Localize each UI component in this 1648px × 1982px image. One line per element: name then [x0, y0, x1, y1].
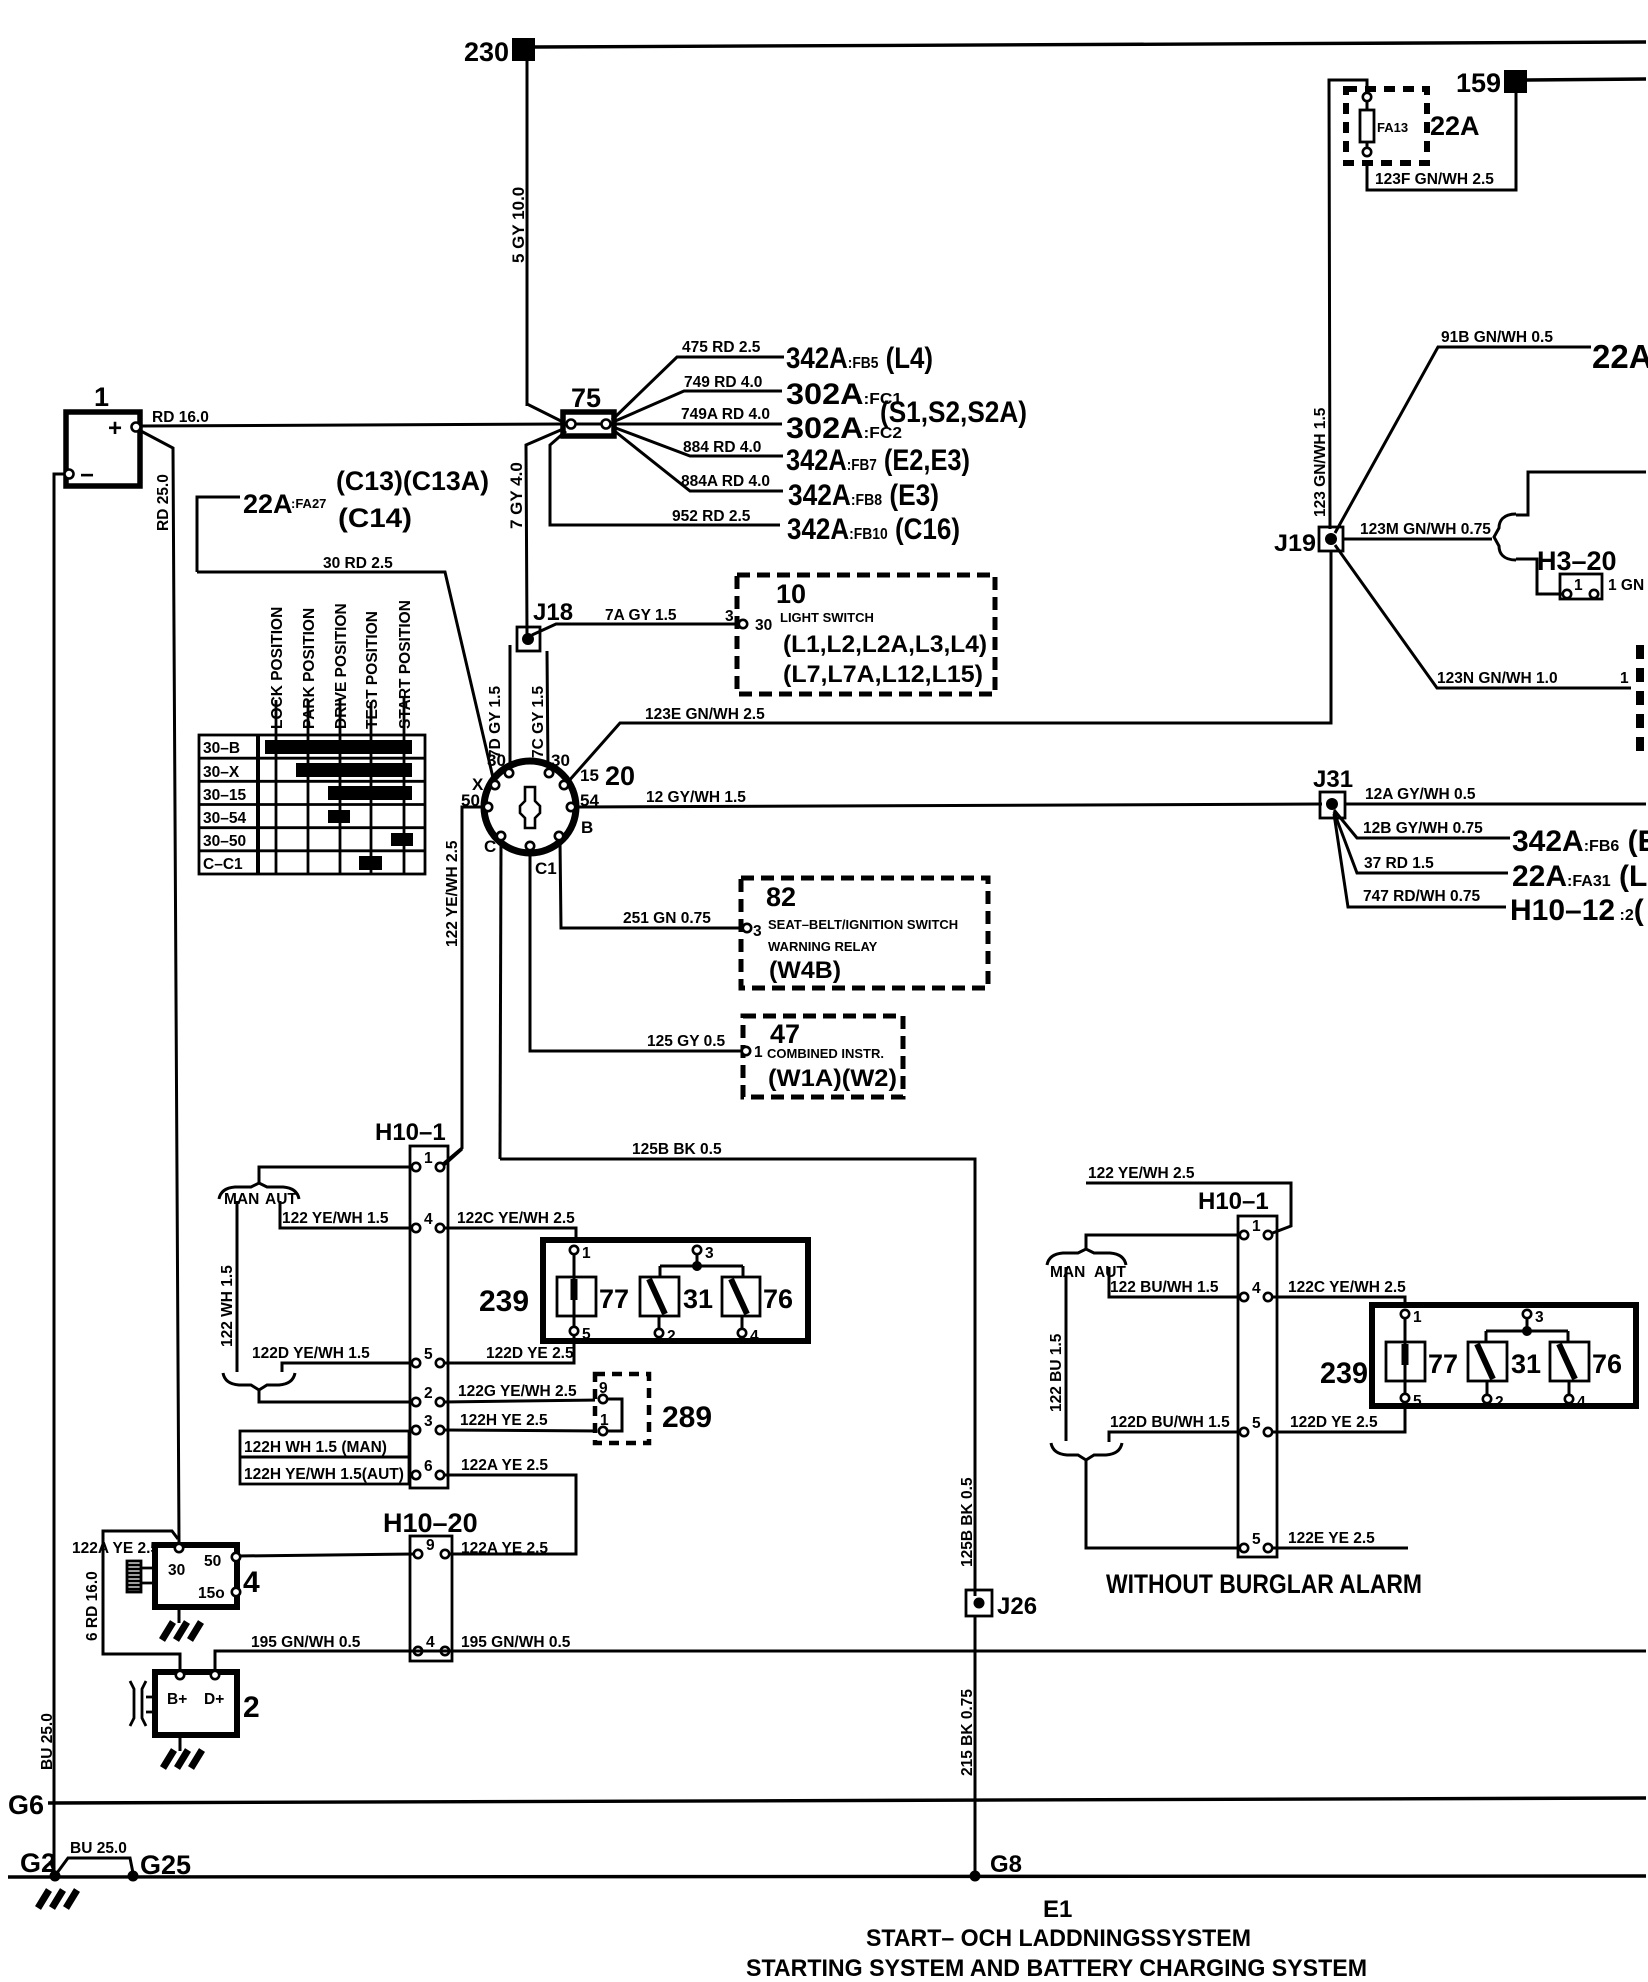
svg-text:10: 10: [776, 579, 806, 609]
svg-text:START– OCH LADDNINGSSYSTEM: START– OCH LADDNINGSSYSTEM: [866, 1925, 1251, 1952]
svg-text:4: 4: [1577, 1394, 1586, 1411]
svg-text:7A GY 1.5: 7A GY 1.5: [605, 607, 677, 624]
svg-text:MAN: MAN: [1050, 1264, 1085, 1281]
alternator 2: [155, 1671, 260, 1735]
svg-text:1 GN: 1 GN: [1608, 577, 1644, 594]
svg-text:(L1,L2,L2A,L3,L4): (L1,L2,L2A,L3,L4): [783, 631, 987, 658]
svg-text:30–50: 30–50: [203, 833, 246, 850]
svg-text:STARTING SYSTEM AND BATTERY CH: STARTING SYSTEM AND BATTERY CHARGING SYS…: [746, 1955, 1367, 1982]
svg-text:3: 3: [725, 608, 734, 625]
svg-text:37 RD 1.5: 37 RD 1.5: [1364, 855, 1434, 872]
svg-text:H10–1: H10–1: [375, 1119, 446, 1146]
svg-text:B+: B+: [167, 1691, 187, 1708]
svg-text:5: 5: [1413, 1393, 1422, 1410]
svg-text:20: 20: [605, 761, 635, 791]
connector J31: [1313, 766, 1353, 818]
svg-text:123E GN/WH 2.5: 123E GN/WH 2.5: [645, 706, 765, 723]
ground under starter: [162, 1607, 201, 1640]
wire 122 YE/WH 1.5 (AUT branch) to pin 4: [280, 1201, 412, 1228]
wire from pin B down to 82: [560, 841, 743, 928]
wire RD 25.0 battery+ down to starter: [139, 430, 179, 1542]
wire 884A RD 4.0 fan: [612, 429, 783, 491]
svg-text:30–B: 30–B: [203, 740, 240, 757]
node G8: [970, 1871, 981, 1882]
svg-text:122D YE/WH 1.5: 122D YE/WH 1.5: [252, 1345, 370, 1362]
svg-text:75: 75: [571, 383, 601, 413]
wire 122 BU/WH 1.5 (AUT branch) to pin 4: [1109, 1267, 1240, 1297]
svg-text:30–X: 30–X: [203, 764, 240, 781]
wire 12 GY/WH 1.5 from pin 54 to J31: [576, 804, 1322, 807]
wire from pin C down: [500, 841, 501, 1159]
svg-text:122D BU/WH 1.5: 122D BU/WH 1.5: [1110, 1414, 1230, 1431]
brace MAN/AUT right: [1047, 1249, 1126, 1265]
svg-text:952 RD 2.5: 952 RD 2.5: [672, 508, 751, 525]
wire battery- to BU 25.0 down: [54, 474, 65, 1876]
wire 122 WH 1.5 (MAN branch): [236, 1201, 239, 1372]
combined instrument 47: [742, 1016, 903, 1097]
svg-text:475 RD 2.5: 475 RD 2.5: [682, 339, 761, 356]
svg-text:749A RD 4.0: 749A RD 4.0: [681, 406, 770, 423]
wire 123 GN/WH 1.5 from fuse to J19: [1329, 80, 1367, 529]
svg-text:G6: G6: [8, 1790, 44, 1820]
wire top rail from 230: [535, 42, 1646, 47]
svg-text:C: C: [484, 837, 496, 856]
ground at G2: [38, 1890, 77, 1908]
wire G2 pointer: [50, 1861, 56, 1875]
lower brace merge right: [1051, 1443, 1122, 1460]
svg-text:6 RD 16.0: 6 RD 16.0: [84, 1571, 101, 1641]
wire 122A YE 2.5 starter to H10-20: [238, 1554, 414, 1556]
svg-text:J18: J18: [533, 599, 573, 626]
svg-text:122D YE 2.5: 122D YE 2.5: [486, 1345, 574, 1362]
light switch 10: [725, 575, 995, 694]
svg-text:122G YE/WH 2.5: 122G YE/WH 2.5: [458, 1383, 577, 1400]
svg-text:1: 1: [1620, 670, 1629, 687]
svg-text:30–54: 30–54: [203, 810, 246, 827]
svg-text:91B GN/WH 0.5: 91B GN/WH 0.5: [1441, 329, 1553, 346]
brace MAN/AUT: [219, 1183, 299, 1199]
svg-text:123M GN/WH 0.75: 123M GN/WH 0.75: [1360, 521, 1491, 538]
connector J18: [517, 599, 573, 651]
svg-text:FA13: FA13: [1377, 120, 1408, 135]
svg-text:30 RD 2.5: 30 RD 2.5: [323, 555, 393, 572]
brace for H3-20: [1494, 514, 1516, 560]
svg-text:77: 77: [1428, 1349, 1458, 1379]
svg-text:1: 1: [424, 1150, 433, 1167]
svg-text:30: 30: [487, 751, 506, 770]
svg-text:DRIVE POSITION: DRIVE POSITION: [333, 603, 350, 729]
svg-text:122 BU 1.5: 122 BU 1.5: [1048, 1333, 1065, 1412]
svg-text:12B GY/WH 0.75: 12B GY/WH 0.75: [1363, 820, 1483, 837]
svg-text:77: 77: [599, 1284, 629, 1314]
wire 7 GY 4.0 from 75 down to J18: [526, 429, 563, 634]
wire RD 16.0 battery+ to 75: [141, 424, 565, 426]
svg-text:342A:FB6 (E3): 342A:FB6 (E3): [1512, 825, 1648, 858]
ignition switch 20: [461, 751, 599, 878]
svg-text:125B BK 0.5: 125B BK 0.5: [959, 1477, 976, 1567]
svg-text:B: B: [581, 818, 593, 837]
svg-text:J31: J31: [1313, 766, 1353, 793]
svg-text:(W4B): (W4B): [769, 957, 841, 984]
dashed component edge at page margin: [1636, 645, 1644, 757]
svg-text:C1: C1: [535, 859, 557, 878]
svg-text:125 GY 0.5: 125 GY 0.5: [647, 1033, 726, 1050]
svg-text:PARK POSITION: PARK POSITION: [301, 608, 318, 729]
wire H3-20 upper lead: [1516, 472, 1646, 515]
svg-text:−: −: [80, 462, 94, 489]
relay 82 seat-belt warning: [741, 878, 988, 988]
wire rail from 159: [1527, 79, 1646, 80]
svg-text:START POSITION: START POSITION: [397, 600, 414, 729]
svg-text:BU 25.0: BU 25.0: [70, 1840, 127, 1857]
svg-text:3: 3: [424, 1413, 433, 1430]
svg-text:122E YE 2.5: 122E YE 2.5: [1288, 1530, 1375, 1547]
svg-text:7 GY 4.0: 7 GY 4.0: [507, 462, 526, 529]
svg-text:22A: 22A: [243, 489, 293, 519]
svg-text:2: 2: [424, 1385, 433, 1402]
wire 122A YE 2.5 pin6 to H10-20: [444, 1475, 576, 1554]
svg-text:122A YE 2.5: 122A YE 2.5: [72, 1540, 159, 1557]
svg-text:15: 15: [580, 766, 599, 785]
wire 749A RD 4.0 fan: [614, 423, 782, 426]
wire 37 RD 1.5: [1334, 812, 1508, 873]
svg-text:30–15: 30–15: [203, 787, 246, 804]
svg-text:BU 25.0: BU 25.0: [39, 1713, 56, 1770]
svg-text:C–C1: C–C1: [203, 856, 243, 873]
svg-text:31: 31: [683, 1284, 713, 1314]
svg-text:4: 4: [750, 1328, 759, 1345]
svg-text:3: 3: [753, 923, 762, 940]
wire 125B BK 0.5: [500, 1159, 975, 1596]
wire 122 YE/WH 2.5 right variant feed: [1086, 1183, 1291, 1234]
fuse FA13 22A: [1346, 89, 1427, 163]
svg-text:122 YE/WH 2.5: 122 YE/WH 2.5: [1088, 1165, 1195, 1182]
wire BU 25.0 jumper G2-G25: [57, 1858, 133, 1873]
svg-text:7D GY 1.5: 7D GY 1.5: [487, 686, 504, 758]
svg-text:(S1,S2,S2A): (S1,S2,S2A): [880, 396, 1027, 429]
svg-text:289: 289: [662, 1401, 712, 1434]
svg-text:MAN: MAN: [224, 1191, 259, 1208]
svg-text:122H YE 2.5: 122H YE 2.5: [460, 1412, 548, 1429]
svg-text:22A: 22A: [1430, 111, 1480, 141]
connector H10-1 left: [375, 1119, 448, 1488]
ignition switch position table: [199, 696, 425, 874]
ground under alternator: [163, 1735, 202, 1768]
svg-text:50: 50: [204, 1553, 221, 1570]
svg-text:+: +: [108, 415, 122, 442]
svg-text:5: 5: [1252, 1415, 1261, 1432]
wire pin1 to MAN/AUT brace: [259, 1167, 412, 1184]
wire pin5 left to lower brace: [282, 1363, 412, 1372]
svg-text:230: 230: [464, 37, 509, 67]
svg-text:76: 76: [1592, 1349, 1622, 1379]
wire 12B GY/WH 0.75: [1334, 810, 1510, 838]
svg-text:122 YE/WH 2.5: 122 YE/WH 2.5: [444, 840, 461, 947]
connector H10-1 right: [1198, 1188, 1277, 1557]
wire 215 BK 0.75: [974, 1616, 977, 1876]
svg-text:2: 2: [1495, 1394, 1504, 1411]
svg-text:5: 5: [424, 1346, 433, 1363]
svg-text:D+: D+: [204, 1691, 224, 1708]
lower brace merge: [223, 1373, 295, 1390]
svg-text:1: 1: [754, 1044, 763, 1061]
svg-text:5: 5: [582, 1326, 591, 1343]
svg-text:47: 47: [770, 1019, 800, 1049]
svg-text:122C YE/WH 2.5: 122C YE/WH 2.5: [457, 1210, 575, 1227]
svg-text:(W1A)(W2): (W1A)(W2): [768, 1065, 897, 1092]
wire 195 GN/WH 0.5 full width: [215, 1651, 1646, 1672]
svg-text:30: 30: [551, 751, 570, 770]
node G25: [128, 1871, 139, 1882]
wire 122G YE/WH 2.5 pin2 to 289: [444, 1400, 600, 1402]
wire pin5 left to lower brace right: [1109, 1432, 1240, 1442]
svg-text:RD 16.0: RD 16.0: [152, 409, 209, 426]
wire 123F GN/WH 2.5: [1367, 93, 1516, 190]
wire 122H YE 2.5 pin3 to 289: [444, 1430, 600, 1431]
svg-text:884A RD 4.0: 884A RD 4.0: [681, 473, 770, 490]
svg-text:239: 239: [1320, 1357, 1368, 1390]
svg-text:WARNING RELAY: WARNING RELAY: [768, 939, 878, 954]
wire 5 GY 10.0 vertical: [526, 61, 529, 406]
wire brace to bottom pin: [1086, 1460, 1240, 1548]
svg-text:H3–20: H3–20: [1537, 546, 1617, 576]
connector J19: [1274, 527, 1343, 557]
svg-text:9: 9: [426, 1537, 435, 1554]
wire 7D GY 1.5: [509, 645, 512, 770]
svg-text:342A:FB7 (E2,E3): 342A:FB7 (E2,E3): [786, 444, 970, 477]
svg-text:76: 76: [763, 1284, 793, 1314]
svg-text:122C YE/WH 2.5: 122C YE/WH 2.5: [1288, 1279, 1406, 1296]
svg-text:2: 2: [243, 1691, 260, 1724]
starter motor 4: [155, 1544, 260, 1607]
wire pin1 right to 122 vertical: [444, 1149, 462, 1165]
connector H3-20: [1537, 546, 1644, 599]
svg-text:159: 159: [1456, 68, 1501, 98]
svg-text:122 BU/WH 1.5: 122 BU/WH 1.5: [1110, 1279, 1219, 1296]
svg-text:LIGHT SWITCH: LIGHT SWITCH: [780, 610, 874, 625]
svg-text:30: 30: [755, 617, 772, 634]
wire 6 RD 16.0 loop: [103, 1531, 180, 1671]
svg-text:749 RD 4.0: 749 RD 4.0: [684, 374, 762, 391]
node 159: [1456, 68, 1527, 98]
connector 289: [595, 1374, 649, 1443]
wire 122D YE 2.5 relay pin5 to H10-1 pin5: [444, 1335, 574, 1363]
svg-text:H10–1: H10–1: [1198, 1188, 1269, 1215]
svg-text:747 RD/WH 0.75: 747 RD/WH 0.75: [1363, 888, 1481, 905]
svg-text:122A YE 2.5: 122A YE 2.5: [461, 1457, 548, 1474]
wire 749 RD 4.0 fan: [613, 391, 782, 422]
wire 884 RD 4.0 fan: [613, 427, 783, 456]
svg-text:122H WH 1.5 (MAN): 122H WH 1.5 (MAN): [244, 1439, 387, 1456]
svg-text:4: 4: [426, 1634, 435, 1651]
svg-text:LOCK POSITION: LOCK POSITION: [269, 607, 286, 729]
starter pinion gear: [127, 1561, 155, 1592]
svg-text:J26: J26: [997, 1593, 1037, 1620]
svg-text:2: 2: [667, 1328, 676, 1345]
svg-text:122A YE 2.5: 122A YE 2.5: [461, 1540, 548, 1557]
svg-text:(L7,L7A,L12,L15): (L7,L7A,L12,L15): [783, 661, 983, 688]
wire 747 RD/WH 0.75: [1334, 814, 1506, 907]
svg-text:1: 1: [1252, 1218, 1261, 1235]
connector H10-20: [383, 1508, 478, 1661]
svg-text:31: 31: [1511, 1349, 1541, 1379]
svg-text:(C14): (C14): [338, 503, 412, 533]
svg-text:5: 5: [1252, 1531, 1261, 1548]
wire brace to pin 2: [259, 1390, 412, 1402]
wire 952 RD 2.5 from 75: [550, 431, 780, 525]
svg-text:7C GY 1.5: 7C GY 1.5: [530, 686, 547, 758]
connector J26: [966, 1590, 1037, 1620]
wire 123N GN/WH 1.0: [1335, 545, 1631, 688]
wire 475 RD 2.5 fan: [612, 357, 784, 420]
svg-text:12A GY/WH 0.5: 12A GY/WH 0.5: [1365, 786, 1476, 803]
svg-text:22A :: 22A :: [1592, 338, 1648, 375]
svg-text:3: 3: [705, 1245, 714, 1262]
wire from pin C1 down to 47: [530, 851, 742, 1051]
svg-text:H10–20: H10–20: [383, 1508, 478, 1538]
svg-text:J19: J19: [1274, 530, 1316, 557]
box 122H MAN/AUT variants: [240, 1431, 409, 1484]
svg-text:3: 3: [1535, 1309, 1544, 1326]
svg-text:123 GN/WH 1.5: 123 GN/WH 1.5: [1312, 407, 1329, 517]
wire pin1 to MAN/AUT brace right: [1086, 1235, 1240, 1250]
connector 75: [563, 383, 614, 436]
node G2: [50, 1871, 61, 1882]
svg-text:123F GN/WH 2.5: 123F GN/WH 2.5: [1375, 171, 1494, 188]
svg-text:125B BK 0.5: 125B BK 0.5: [632, 1141, 722, 1158]
svg-text:1: 1: [1574, 577, 1583, 594]
wire 91B GN/WH 0.5: [1335, 347, 1591, 533]
relay 239 left: [479, 1240, 808, 1345]
svg-text:15o: 15o: [198, 1585, 225, 1602]
svg-text:E1: E1: [1043, 1896, 1072, 1923]
svg-text:884 RD 4.0: 884 RD 4.0: [683, 439, 761, 456]
wire 122 YE/WH 2.5 from pin 50 down: [443, 807, 484, 1164]
svg-text:12 GY/WH 1.5: 12 GY/WH 1.5: [646, 789, 746, 806]
svg-text:RD 25.0: RD 25.0: [155, 474, 172, 531]
svg-text:TEST POSITION: TEST POSITION: [364, 611, 381, 729]
svg-text:4: 4: [424, 1211, 433, 1228]
svg-text:239: 239: [479, 1285, 529, 1318]
svg-text:122 WH 1.5: 122 WH 1.5: [219, 1265, 236, 1347]
svg-text:G8: G8: [990, 1851, 1022, 1878]
wire 123E GN/WH 2.5 from pin 15: [567, 551, 1331, 783]
node 230: [464, 37, 535, 67]
label 22A:FA27: [197, 489, 326, 572]
svg-text:WITHOUT BURGLAR ALARM: WITHOUT BURGLAR ALARM: [1106, 1569, 1422, 1599]
svg-text:123N GN/WH 1.0: 123N GN/WH 1.0: [1437, 670, 1558, 687]
relay 239 right: [1320, 1305, 1636, 1411]
svg-text:4: 4: [1252, 1280, 1261, 1297]
svg-text:5 GY 10.0: 5 GY 10.0: [509, 187, 528, 263]
svg-text:122H YE/WH 1.5(AUT): 122H YE/WH 1.5(AUT): [244, 1466, 404, 1483]
alternator pulley: [130, 1681, 155, 1726]
svg-text:195 GN/WH 0.5: 195 GN/WH 0.5: [251, 1634, 361, 1651]
wire 122 BU 1.5 (MAN branch): [1065, 1267, 1068, 1441]
svg-text:6: 6: [424, 1458, 433, 1475]
wire 7A GY 1.5 J18 to light switch: [532, 624, 738, 635]
wire 122C YE/WH 2.5 pin4 to relay 239: [444, 1228, 576, 1246]
svg-text:(C13)(C13A): (C13)(C13A): [336, 466, 489, 496]
svg-text:COMBINED INSTR.: COMBINED INSTR.: [767, 1046, 884, 1061]
battery 1: [65, 382, 141, 489]
svg-text:215 BK 0.75: 215 BK 0.75: [959, 1689, 976, 1776]
svg-text:195 GN/WH 0.5: 195 GN/WH 0.5: [461, 1634, 571, 1651]
svg-text:SEAT–BELT/IGNITION SWITCH: SEAT–BELT/IGNITION SWITCH: [768, 917, 958, 932]
wire 30 RD 2.5 to ignition X: [197, 572, 494, 782]
wire 122C YE/WH 2.5 pin4 to relay 239 right: [1272, 1297, 1405, 1310]
wire 7C GY 1.5: [547, 651, 548, 770]
svg-text:82: 82: [766, 882, 796, 912]
svg-text:251 GN 0.75: 251 GN 0.75: [623, 910, 711, 927]
wire 122D YE 2.5 relay pin5 to H10-1 pin5 right: [1272, 1402, 1405, 1432]
wire 123M GN/WH 0.75 to H3-20: [1343, 538, 1492, 541]
svg-text:122 YE/WH 1.5: 122 YE/WH 1.5: [282, 1210, 389, 1227]
svg-text:122D YE 2.5: 122D YE 2.5: [1290, 1414, 1378, 1431]
wire 122E YE 2.5: [1272, 1547, 1408, 1550]
wire 12A GY/WH 0.5: [1345, 803, 1646, 806]
svg-text:1: 1: [1413, 1309, 1422, 1326]
svg-text:1: 1: [94, 382, 109, 412]
wire H3-20 lower lead: [1516, 559, 1562, 594]
svg-text::FA27: :FA27: [291, 496, 326, 511]
svg-text:4: 4: [243, 1566, 260, 1599]
wire elbow 230 rail into 75 left pin: [527, 404, 565, 423]
svg-text:1: 1: [582, 1245, 591, 1262]
svg-text:30: 30: [168, 1562, 185, 1579]
